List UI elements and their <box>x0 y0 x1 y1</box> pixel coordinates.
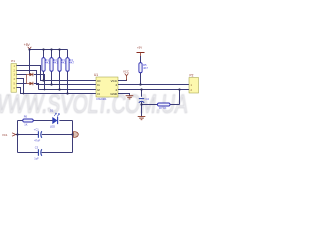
svg-text:I2: I2 <box>97 88 100 92</box>
port OUT (right) <box>73 132 78 138</box>
capacitor C1 <box>34 128 42 143</box>
svg-text:I3: I3 <box>97 92 100 96</box>
wire +5V rail <box>30 49 68 51</box>
svg-text:VC1: VC1 <box>2 133 8 137</box>
resistor R3 <box>58 50 67 90</box>
diode CR2 on pin5 wire <box>27 82 33 85</box>
wire U1 VCC pin <box>118 79 127 80</box>
connector P2 <box>189 74 199 94</box>
wire middle row of sub-circuit <box>18 134 73 136</box>
+5V power symbol (R5) <box>137 46 145 57</box>
wire P1 pin2 to row2 <box>17 71 97 85</box>
diode CR1 on pin3 wire <box>27 73 33 76</box>
wire bus line A (U1 to P2) <box>118 84 189 86</box>
svg-text:VCC: VCC <box>111 79 118 83</box>
svg-text:GND: GND <box>110 92 118 96</box>
svg-text:DS2401: DS2401 <box>97 97 108 101</box>
svg-text:+5V: +5V <box>24 43 31 47</box>
svg-text:I1: I1 <box>97 83 100 87</box>
wire P1 pin3 to row3 <box>17 75 97 90</box>
wire row3 start <box>39 89 97 91</box>
resistor R5 <box>139 56 148 85</box>
VCC power symbol <box>123 70 129 81</box>
resistor R2 <box>50 50 59 85</box>
svg-text:P1: P1 <box>11 59 15 63</box>
port VC1 (left) <box>2 133 18 137</box>
LED D1 <box>50 108 60 128</box>
svg-text:U1: U1 <box>94 73 98 77</box>
resistor R7 <box>142 103 180 110</box>
wire R7 to bus <box>179 90 181 105</box>
resistor R4 <box>66 50 75 94</box>
watermark text www...com.ua <box>0 89 190 118</box>
junction dots sub-circuit <box>16 133 73 135</box>
capacitor C3 <box>34 146 42 161</box>
connector P1 <box>11 59 17 92</box>
wire anode link CR1-CR2 <box>26 75 28 84</box>
wire U1 GND pin <box>118 94 130 96</box>
resistor R1 <box>42 50 51 81</box>
wire loop left/top/right/bottom <box>18 121 73 153</box>
+5V power symbol <box>24 43 32 49</box>
ground (C2) <box>138 117 146 120</box>
svg-text:+5V: +5V <box>137 46 142 50</box>
resistor R6 <box>23 115 33 127</box>
wire P1 pin4 to row4 <box>17 79 24 94</box>
wire +5V vertical drop <box>29 50 31 75</box>
IC U1 <box>94 73 118 101</box>
junction dots <box>23 48 181 105</box>
capacitor C2 <box>139 90 150 117</box>
wire bus line B (U1 to P2) <box>118 89 189 91</box>
wire P1 pin5 to row3 <box>17 84 39 90</box>
wire P1 pin6 to row4 <box>17 88 97 94</box>
svg-text:VCC: VCC <box>123 70 129 74</box>
svg-text:P2: P2 <box>190 74 194 78</box>
wire P1 pin1 to row1 <box>17 66 97 81</box>
ground (U1) <box>126 96 134 99</box>
